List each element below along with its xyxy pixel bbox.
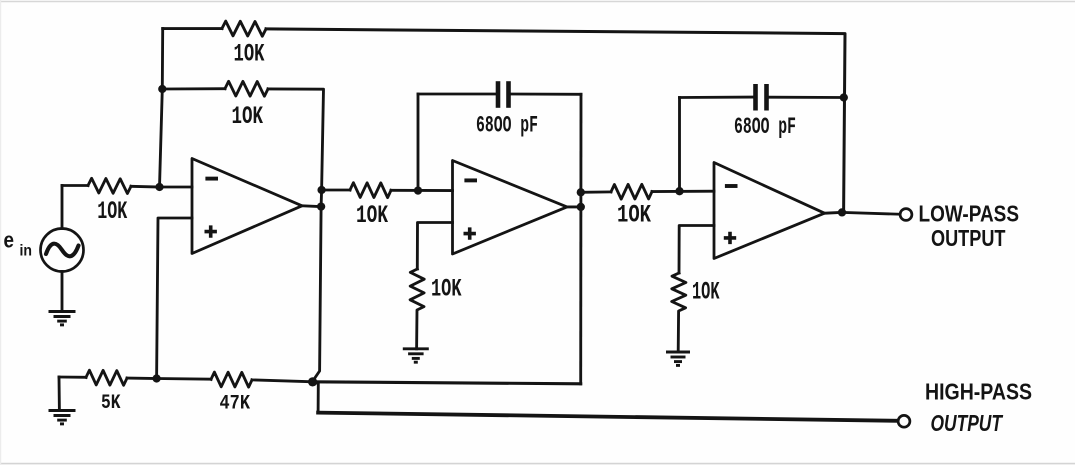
wire top feedback left segment <box>163 27 222 30</box>
wire to A1 inverting input <box>160 186 193 189</box>
op-amp A2 <box>453 161 568 255</box>
ground A3 + <box>666 352 690 365</box>
terminal low-pass output <box>900 209 912 221</box>
wire 2nd feedback left segment <box>162 87 225 90</box>
wire cap C1 top right <box>511 93 582 96</box>
svg-text:1OK: 1OK <box>232 102 264 131</box>
node A1 out to R12 tee <box>317 186 325 194</box>
wire cap C1 top left <box>418 93 496 96</box>
svg-text:LOW-PASS: LOW-PASS <box>919 201 1020 227</box>
wire cap C1 left vertical <box>417 94 420 191</box>
wire A1 noninverting input down to bottom node <box>157 218 192 379</box>
svg-text:1OK: 1OK <box>617 201 651 230</box>
wire R_in to A1 inverting node <box>131 185 160 189</box>
capacitor C2 6800pF <box>756 84 767 111</box>
wire A2 + input down <box>417 223 452 270</box>
svg-text:HIGH-PASS: HIGH-PASS <box>925 378 1032 404</box>
svg-text:in: in <box>20 243 33 260</box>
wire to low-pass terminal <box>842 212 900 214</box>
wire A2 node to R23 <box>581 190 611 193</box>
svg-text:1OK: 1OK <box>431 275 462 304</box>
node A2 inverting input junction <box>414 186 422 194</box>
wire node to R 47K <box>157 377 211 381</box>
scan edge top <box>0 1 1075 3</box>
terminal high-pass output <box>898 415 910 427</box>
wire A2 output vertical <box>579 94 582 384</box>
svg-text:5K: 5K <box>101 392 121 415</box>
ground A2 + <box>403 349 429 362</box>
wire A1 output stub <box>302 204 321 208</box>
node low-pass output junction <box>838 208 846 216</box>
resistor R12 10K <box>350 183 391 198</box>
node high-pass junction <box>308 377 317 386</box>
scan edge left <box>0 0 2 465</box>
node C2 to LP vertical junction <box>840 93 848 101</box>
node A1 inverting input junction <box>155 183 163 191</box>
node A3 inverting input junction <box>675 187 683 195</box>
ground below source <box>49 312 76 325</box>
wire source to ground <box>61 272 64 312</box>
op-amp A1 <box>192 159 302 254</box>
source e_in circle <box>41 229 84 272</box>
node A1 output junction <box>317 202 325 210</box>
svg-text:1OK: 1OK <box>356 201 388 230</box>
scan edge bottom <box>0 463 1075 465</box>
wire bottom-left to ground <box>58 377 61 411</box>
wire A1 out node to R12 <box>322 189 350 192</box>
wire high-pass output run <box>318 413 898 421</box>
node 5K 47K junction <box>152 374 160 382</box>
resistor R_in 10K <box>88 178 131 193</box>
svg-text:1OK: 1OK <box>97 197 127 226</box>
wire A2 output stub <box>567 205 581 208</box>
sine wave inside source <box>46 244 79 257</box>
wire HP node to A2 output bottom <box>312 382 581 384</box>
wire 2nd feedback to A1 output vertical down to HP node <box>268 89 324 382</box>
node 2nd feedback tee <box>158 85 166 93</box>
wire left vertical node to top <box>160 29 163 187</box>
svg-text:68OO pF: 68OO pF <box>476 113 538 139</box>
svg-text:47K: 47K <box>220 393 251 416</box>
wire cap C2 left vertical <box>678 98 681 192</box>
capacitor C1 6800pF <box>498 81 509 108</box>
op-amp A3 <box>714 163 825 259</box>
wire input node to R_in <box>62 184 88 187</box>
wire cap C2 top right <box>769 96 844 99</box>
wire HP node down <box>312 382 318 413</box>
resistor R 47K <box>211 372 252 387</box>
wire ground to R 5K <box>59 376 86 379</box>
resistor R_fb2 10K <box>225 81 268 96</box>
resistor R23 10K <box>611 184 652 199</box>
wire R12 to A2 inverting input <box>391 189 453 192</box>
resistor R_A2+ 10K vertical <box>410 269 424 349</box>
wire top feedback to low-pass node <box>266 29 845 212</box>
node A2 output junction <box>577 203 585 211</box>
wire A3 + input down <box>679 226 714 274</box>
svg-text:1OK: 1OK <box>692 278 720 307</box>
wire 47K to HP node <box>252 380 312 382</box>
svg-text:e: e <box>4 228 15 253</box>
svg-text:1OK: 1OK <box>234 40 265 69</box>
wire R23 to A3 inverting input <box>652 190 714 193</box>
wire source top to input node <box>61 186 64 229</box>
wire cap C2 top left <box>680 96 754 99</box>
svg-text:OUTPUT: OUTPUT <box>931 225 1006 251</box>
node A2 out to R23 tee <box>577 188 585 196</box>
ground bottom left <box>49 411 76 424</box>
svg-text:OUTPUT: OUTPUT <box>931 410 1004 436</box>
resistor R_A3+ 10K vertical <box>672 273 686 352</box>
wire A3 output stub <box>825 211 843 215</box>
resistor R 5K <box>86 370 127 385</box>
svg-text:68OO pF: 68OO pF <box>734 114 796 140</box>
wire 5K to node <box>127 377 157 380</box>
resistor R_fb_top 10K <box>222 21 266 36</box>
